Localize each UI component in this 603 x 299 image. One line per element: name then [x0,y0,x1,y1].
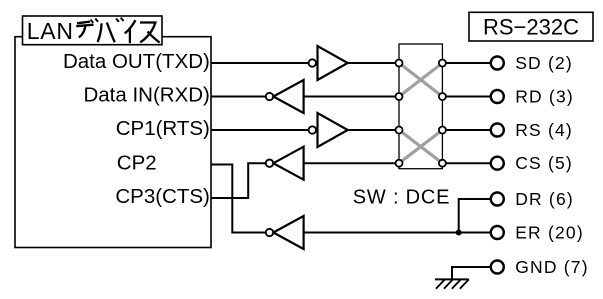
buffer receiver row4 (CS) [266,147,304,180]
terminal SD(2) circle [491,57,504,70]
LAN device box [15,37,211,248]
svg-text:Data IN(RXD): Data IN(RXD) [83,83,209,106]
terminal RS(4) circle [491,124,504,137]
buffer receiver row2 (RXD) [266,80,304,113]
svg-text:LAN: LAN [27,18,74,44]
wire DR branch [459,199,491,233]
terminal DR(6) circle [491,193,504,206]
wire CP2 to ER row [211,165,266,233]
terminal GND(7) circle [491,261,504,274]
katakana i [125,20,136,43]
svg-text:CP2: CP2 [117,152,157,175]
katakana ba [98,18,124,43]
label RD (3) [515,86,574,106]
label box RS-232C [469,12,593,41]
label box LAN device [23,16,163,45]
label GND (7) [515,257,589,277]
buffer receiver row6 (ER) [266,216,304,249]
switch pin circles left [396,60,403,167]
label DR (6) [515,189,574,209]
terminal RD(3) circle [491,90,504,103]
label RS (4) [515,120,573,140]
wire Data OUT(TXD) row [211,62,491,64]
label CP3(CTS) [115,185,210,208]
svg-text:CP1(RTS): CP1(RTS) [116,117,210,140]
svg-text:CP3(CTS): CP3(CTS) [115,185,210,208]
label CS (5) [515,153,573,173]
wire CP1(RTS) row [211,129,491,131]
wire Data IN(RXD) row [211,96,491,98]
crossover gray wires upper X [399,63,442,97]
katakana su [140,23,160,43]
label CP2 [117,152,157,175]
svg-text:ER (20): ER (20) [515,222,584,242]
svg-text:DR (6): DR (6) [515,189,574,209]
label CP1(RTS) [116,117,210,140]
label SW : DCE [353,186,451,208]
crossover gray wires lower X [399,130,442,163]
svg-text:SD (2): SD (2) [515,53,573,73]
svg-text:GND (7): GND (7) [515,257,589,277]
buffer driver row3 (RTS) [309,113,348,147]
svg-text:SW : DCE: SW : DCE [353,186,451,208]
svg-text:CS (5): CS (5) [515,153,573,173]
svg-text:RS (4): RS (4) [515,120,573,140]
terminal CS(5) circle [491,157,504,170]
svg-text:RS−232C: RS−232C [483,15,579,40]
svg-text:Data OUT(TXD): Data OUT(TXD) [63,50,210,73]
junction dot DR/ER [456,230,462,236]
switch box SW [399,44,442,169]
svg-text:RD (3): RD (3) [515,86,574,106]
label ER (20) [515,222,584,242]
wire GND row [452,267,491,280]
terminal ER(20) circle [491,226,504,239]
switch pin circles right [439,60,446,167]
ground symbol [435,279,469,288]
wire CS row to CP3 [211,163,491,198]
wire ER row [304,232,491,234]
label Data IN(RXD) [83,83,209,106]
label Data OUT(TXD) [63,50,210,73]
katakana de [76,19,98,38]
label SD (2) [515,53,573,73]
buffer driver row1 (TXD) [309,46,348,80]
